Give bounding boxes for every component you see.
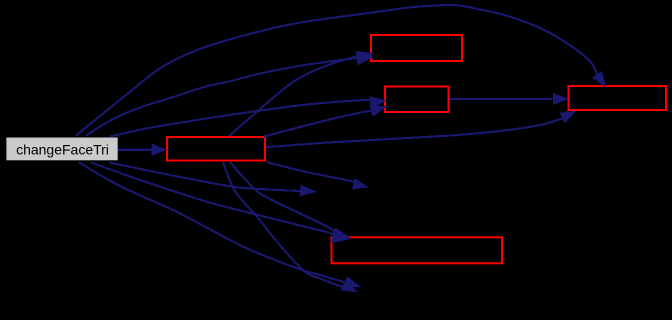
arrowhead into N2 a (357, 52, 373, 63)
node changeFaceTri N0 (6, 137, 118, 161)
arrowhead into N4 left (554, 94, 568, 104)
arrowhead into N4 bottom (560, 111, 575, 122)
wire N0 to N4 big top arc (76, 5, 600, 135)
arrowhead into I3b (341, 281, 357, 292)
node N4 red box right (569, 86, 667, 110)
wire N1 to N2 (229, 56, 362, 136)
wire N1 to I2 (267, 162, 358, 182)
arrowhead into N2 b (356, 53, 372, 64)
arrowhead into N3 b (370, 105, 386, 116)
arrowhead into I2 (353, 179, 368, 189)
node N2 red box top (371, 35, 462, 61)
node N5 red box bottom wide (332, 237, 503, 263)
svg-text:changeFaceTri: changeFaceTri (16, 141, 109, 157)
wire N0 to N5 (91, 163, 334, 235)
arrowhead into N5 a (333, 228, 350, 239)
wire N0 to N1 bold (118, 149, 153, 151)
arrowhead into N4 top (593, 72, 606, 87)
wire N0 to N2 (86, 57, 364, 135)
arrowhead into N1 (152, 144, 166, 155)
arrowhead into I3a (344, 277, 360, 287)
wire N0 to I3a (79, 163, 349, 284)
node N3 red box second (385, 87, 449, 113)
wire N0 to N3 (110, 100, 374, 137)
wire N0 to I1 (109, 163, 305, 192)
arrowhead into I1 (300, 185, 315, 196)
wire N1 to I3b (223, 162, 346, 288)
wire N1 to N4 (266, 117, 566, 147)
wire N1 to N5 (230, 162, 337, 232)
arrowhead into N3 a (370, 97, 386, 108)
arrowhead into N5 b (332, 232, 349, 243)
wire N3 to N4 (450, 98, 553, 100)
wire N1 to N3 (264, 110, 375, 137)
node N1 red box middle (167, 137, 265, 161)
